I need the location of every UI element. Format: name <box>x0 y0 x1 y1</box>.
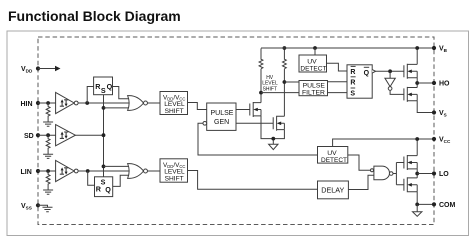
pin SD dot <box>36 133 40 137</box>
wire U2 out to SD bus <box>75 134 103 136</box>
level shift LS1 box <box>160 92 188 115</box>
svg-text:VB: VB <box>439 46 448 54</box>
wire Q6 drain to LO node <box>416 174 418 178</box>
VB rail wire <box>261 47 434 49</box>
wire U6 Q output to gate G2 <box>113 175 130 186</box>
wire Q4 source to VS <box>417 101 434 113</box>
schmitt buffer U1 (HIN) <box>56 92 75 113</box>
pin VCC dot <box>432 137 436 141</box>
wire G1 to level shift LS1 <box>148 102 161 104</box>
pin VDD dot <box>36 66 40 70</box>
level shift LS2 box <box>160 159 188 182</box>
wire U3 out to gate <box>78 170 129 172</box>
wire HO node to pin <box>417 82 434 84</box>
svg-text:Q: Q <box>105 185 111 194</box>
svg-text:Functional Block Diagram: Functional Block Diagram <box>8 8 181 24</box>
svg-text:UV: UV <box>307 59 317 66</box>
resistor HIN pulldown <box>46 103 50 122</box>
wire Q5 drain to VCC rail <box>416 139 418 156</box>
G1 output bubble <box>144 101 148 105</box>
VDD arrowhead <box>55 66 61 71</box>
gate G2 (3-input NOR, LIN channel) <box>128 164 144 179</box>
node HO junction <box>415 81 419 85</box>
delay box U11 <box>318 181 349 199</box>
transistor Q3 (HO pull-up) <box>404 64 417 79</box>
svg-text:COM: COM <box>439 202 456 209</box>
wire Q1 Q2 sources to ground bus <box>261 116 284 144</box>
wire U1 out to gate <box>78 102 129 104</box>
U3 hysteresis glyph <box>60 168 69 174</box>
node HIN resistor tap <box>46 101 50 105</box>
pin COM dot <box>432 202 436 206</box>
svg-text:GEN: GEN <box>214 119 229 126</box>
Q1 body arrow <box>253 108 257 112</box>
svg-text:SHIFT: SHIFT <box>165 176 184 183</box>
wire LS2 output to delay <box>188 171 318 190</box>
wire Q1 drain up <box>260 69 262 103</box>
wire UV2 output to gate G3 <box>348 155 371 170</box>
Q6 body arrow <box>407 183 411 187</box>
svg-text:DETECT: DETECT <box>300 66 326 73</box>
pin VS dot <box>432 110 436 114</box>
Q4 body arrow <box>407 93 411 97</box>
svg-text:VSS: VSS <box>21 203 32 211</box>
gate G1 (3-input NOR, HIN channel) <box>128 96 144 111</box>
wire U8 Q to output stage <box>376 70 404 72</box>
wire Q2 drain up <box>283 69 285 116</box>
svg-text:R: R <box>350 69 355 76</box>
node COM junction <box>415 203 419 207</box>
VDD arrow wire <box>38 68 56 70</box>
schmitt buffer U2 (SD) <box>56 125 76 146</box>
node LO junction <box>415 172 419 176</box>
IC boundary (dashed) <box>38 37 434 225</box>
node Q2 drain to pulse filter <box>283 80 287 84</box>
ground HIN (earth) <box>43 122 53 126</box>
svg-text:HO: HO <box>439 81 450 88</box>
ground SD (earth) <box>43 154 53 158</box>
svg-text:LIN: LIN <box>21 169 32 176</box>
transistor Q4 (HO pull-down) <box>404 87 417 102</box>
Q3 body arrow <box>407 70 411 74</box>
resistor SD pulldown <box>46 135 50 154</box>
wire Q1 drain to pulse filter lower input <box>261 92 299 94</box>
node LIN resistor tap <box>46 169 50 173</box>
wire SD bus to G1 input <box>104 107 130 109</box>
U8 output level marker triangle <box>372 70 375 73</box>
resistor R1 (VB to Q1 drain) <box>259 48 263 68</box>
node A (HIN net junction) <box>85 101 89 105</box>
resistor R2 (VB to Q2 drain) <box>283 48 287 68</box>
node Q1 drain to pulse filter <box>259 91 263 95</box>
svg-text:PULSE: PULSE <box>211 110 234 117</box>
transistor Q2 (HV level shift reset) <box>273 116 284 131</box>
svg-text:LEVEL: LEVEL <box>164 169 185 176</box>
transistor Q5 (LO pull-up) <box>404 155 417 170</box>
wire LO node to pin <box>417 173 434 175</box>
transistor Q1 (HV level shift set) <box>250 102 261 117</box>
pulse gen U7 box <box>207 103 236 130</box>
wire HIN to buffer <box>38 102 56 104</box>
latch U5 box (HIN RS latch) <box>94 77 113 95</box>
wire G2 to level shift LS2 <box>148 170 161 172</box>
wire UV2 top to VCC rail <box>333 139 434 147</box>
wire SD bus vertical <box>103 95 105 177</box>
wire LS1 to pulse gen <box>188 103 207 110</box>
G3 output bubble <box>389 172 393 176</box>
node UV1 feed on VB rail <box>313 46 317 50</box>
ground triangle (HV level shift) <box>269 144 278 149</box>
pin VSS dot <box>36 203 40 207</box>
svg-text:DELAY: DELAY <box>321 186 344 195</box>
U7 inverted input bubble <box>203 121 207 125</box>
wire UV1 output to latch U8 <box>327 63 348 71</box>
wire U5 Q output to gate G1 <box>113 87 130 99</box>
Q2 body arrow <box>277 122 282 126</box>
node R2 top on VB rail <box>283 46 287 50</box>
wire Q3 drain to VB rail <box>416 48 418 64</box>
node SD bus to gate G1 <box>102 106 106 110</box>
svg-text:DETECT: DETECT <box>321 157 347 164</box>
wire Q5 source to LO <box>416 169 418 174</box>
U1 output bubble <box>74 101 78 105</box>
ground triangle (COM) <box>413 204 422 216</box>
svg-text:LEVEL: LEVEL <box>164 101 185 108</box>
node ground bus <box>271 137 275 141</box>
node SD resistor tap <box>46 133 50 137</box>
node Q3 drain on VB rail <box>415 46 419 50</box>
svg-text:S: S <box>101 86 106 95</box>
wire SD bus to G2 input <box>104 165 130 167</box>
U3 output bubble <box>74 169 78 173</box>
svg-text:Q: Q <box>364 70 370 77</box>
svg-text:UV: UV <box>327 150 337 157</box>
inverter U10 (high side) <box>385 71 404 94</box>
svg-text:R: R <box>96 185 102 194</box>
wire U7 bottom output to Q2 gate <box>236 122 273 124</box>
latch U6 box (LIN RS latch) <box>95 177 113 197</box>
wire VSS to ground <box>38 205 48 207</box>
wire Q6 source to COM <box>417 192 434 205</box>
pulse filter box U9 <box>299 81 328 96</box>
UV detect high box UV1 <box>299 55 327 72</box>
node Q5 drain on VCC rail <box>415 137 419 141</box>
wire U11 output to gate G3 <box>348 175 374 189</box>
wire U9 lower output to latch <box>328 92 348 94</box>
gate G3 (NAND low side) <box>374 166 390 180</box>
svg-text:SHIFT: SHIFT <box>165 108 184 115</box>
U10 output bubble <box>388 87 392 91</box>
wire U5 R input from HIN <box>87 87 93 104</box>
pin LIN dot <box>36 169 40 173</box>
pin HO dot <box>432 81 436 85</box>
pin HIN dot <box>36 101 40 105</box>
wire Q2 drain to pulse filter upper input <box>284 81 299 83</box>
svg-text:R: R <box>350 79 355 86</box>
latch U8 box (high side RS) <box>347 65 372 98</box>
schmitt buffer U3 (LIN) <box>56 160 75 181</box>
wire U7 top output to Q1 gate <box>236 109 250 111</box>
resistor LIN pulldown <box>46 171 50 190</box>
wire U9 upper output to latch <box>328 81 348 83</box>
svg-text:HIN: HIN <box>21 101 33 108</box>
Q5 body arrow <box>407 161 411 165</box>
node SD joins bus <box>102 133 106 137</box>
wire Q3 source to HO <box>416 78 418 83</box>
G2 output bubble <box>144 169 148 173</box>
wire UV2 output to U7 bubble <box>198 123 318 155</box>
svg-text:FILTER: FILTER <box>302 90 325 97</box>
node Q-bar split <box>388 69 392 73</box>
U2 hysteresis glyph <box>60 132 69 138</box>
svg-text:VS: VS <box>439 110 447 118</box>
svg-text:Q: Q <box>107 82 113 91</box>
ground VSS (earth) <box>43 207 53 211</box>
U1 hysteresis glyph <box>60 100 69 106</box>
svg-text:SHIFT: SHIFT <box>263 86 277 92</box>
svg-text:SD: SD <box>24 133 34 140</box>
svg-text:VDD: VDD <box>21 66 33 74</box>
node SD bus to gate G2 <box>102 165 106 169</box>
wire LIN to buffer <box>38 170 56 172</box>
G3 input bubble <box>371 169 374 172</box>
wire U6 R input from LIN <box>88 171 95 185</box>
svg-text:LO: LO <box>439 171 449 178</box>
wire Q4 drain to HO node <box>416 83 418 88</box>
pin LO dot <box>432 171 436 175</box>
node B (LIN net junction) <box>86 169 90 173</box>
ground LIN (earth) <box>43 190 53 194</box>
svg-text:S: S <box>350 91 355 98</box>
transistor Q6 (LO pull-down) <box>404 177 417 192</box>
UV detect low box UV2 <box>318 147 348 164</box>
wire G3 output split to gates <box>393 163 404 185</box>
svg-text:VCC: VCC <box>439 137 451 145</box>
wire SD to buffer <box>38 134 56 136</box>
wire VB rail to UV1 <box>314 48 316 55</box>
pin VB dot <box>432 46 436 50</box>
